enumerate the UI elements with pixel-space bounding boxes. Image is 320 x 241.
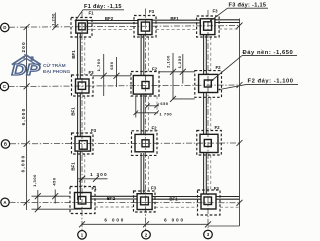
svg-text:BF2: BF2 — [105, 16, 114, 21]
svg-text:F1: F1 — [91, 186, 97, 191]
svg-text:1,700: 1,700 — [96, 58, 101, 71]
svg-text:F3 đáy: -1,15: F3 đáy: -1,15 — [229, 3, 267, 9]
svg-text:BF1: BF1 — [71, 162, 76, 171]
svg-text:1 700: 1 700 — [159, 111, 172, 116]
svg-text:ĐẠI PHONG: ĐẠI PHONG — [43, 69, 70, 75]
svg-text:F3: F3 — [88, 70, 94, 75]
svg-text:1 300: 1 300 — [90, 172, 108, 177]
svg-text:6 000: 6 000 — [104, 217, 125, 222]
svg-text:6,000: 6,000 — [20, 155, 25, 173]
svg-text:650: 650 — [160, 101, 169, 106]
svg-text:BF1: BF1 — [170, 16, 179, 21]
svg-text:1,300: 1,300 — [32, 174, 37, 187]
svg-text:F2: F2 — [214, 125, 220, 130]
svg-text:BF2: BF2 — [107, 196, 116, 201]
svg-text:F2 đáy: -1,100: F2 đáy: -1,100 — [248, 79, 294, 85]
svg-text:2,100: 2,100 — [165, 55, 170, 68]
svg-text:F3: F3 — [151, 186, 157, 191]
svg-text:450: 450 — [52, 177, 57, 186]
svg-text:F1 đáy: -1,15: F1 đáy: -1,15 — [84, 4, 122, 10]
svg-text:BF1: BF1 — [71, 50, 76, 59]
svg-text:F2: F2 — [152, 67, 158, 72]
svg-text:F1: F1 — [88, 11, 94, 16]
svg-text:BF1: BF1 — [169, 196, 178, 201]
svg-text:B: B — [4, 142, 7, 147]
svg-text:CỪ TRÀM: CỪ TRÀM — [43, 62, 66, 69]
svg-text:F3: F3 — [91, 128, 97, 133]
svg-text:1,250: 1,250 — [50, 13, 55, 26]
svg-text:F3: F3 — [214, 186, 220, 191]
svg-text:F3: F3 — [149, 9, 155, 14]
svg-text:BF1: BF1 — [71, 107, 76, 116]
svg-text:1,250: 1,250 — [177, 55, 182, 68]
svg-text:F3: F3 — [212, 9, 218, 14]
svg-text:650: 650 — [109, 61, 114, 70]
svg-text:6,000: 6,000 — [21, 108, 26, 126]
svg-text:Đáy nền: -1,650: Đáy nền: -1,650 — [243, 50, 294, 56]
svg-text:F2: F2 — [151, 126, 157, 131]
svg-text:D: D — [3, 25, 6, 30]
svg-text:F2: F2 — [215, 65, 221, 70]
svg-text:DP: DP — [12, 62, 41, 79]
svg-text:6 000: 6 000 — [164, 217, 185, 222]
